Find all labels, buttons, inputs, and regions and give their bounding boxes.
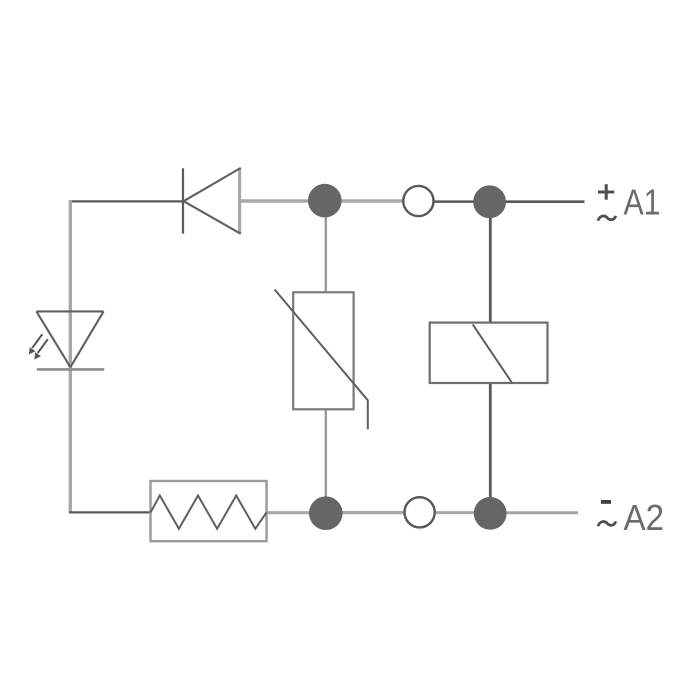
wire: top-left horizontal (left column to diode cathode): [69, 200, 183, 202]
node junction dot top-right: [473, 185, 506, 218]
varistor R2 box: [293, 292, 353, 409]
LED light arrow 2: [34, 339, 48, 359]
varistor R2 diagonal stroke with tail: [275, 290, 368, 430]
relay coil K1 box: [430, 323, 548, 383]
LED V2 cathode bar: [37, 368, 104, 371]
wire: top-middle dot to open terminal circle: [330, 199, 404, 202]
wire: bottom open circle to bottom-right dot: [432, 511, 490, 514]
wire: relay column lower (coil to bottom-right dot): [489, 383, 492, 513]
wire: left column vertical (through LED): [69, 200, 72, 512]
diode V1 triangle: [184, 168, 241, 234]
wire: resistor to bottom-middle dot: [267, 511, 331, 514]
svg-text:A1: A1: [624, 182, 661, 223]
svg-text:A2: A2: [624, 497, 665, 538]
wire: varistor column upper (top dot to varistor): [325, 204, 327, 293]
wire: relay column upper (top-right dot to coil): [489, 204, 492, 323]
AC tilde symbol at A2: [598, 522, 616, 527]
diode V1 cathode bar: [182, 168, 184, 233]
resistor R1 zigzag: [151, 496, 267, 529]
polarity minus symbol at A2: [601, 500, 611, 504]
node junction dot bottom-right: [474, 497, 507, 530]
wire: varistor column lower (varistor to bottom dot): [325, 410, 327, 514]
terminal open circle top: [403, 186, 433, 216]
wire: open circle to top-right node dot: [430, 200, 490, 203]
node junction dot top-middle: [308, 184, 342, 218]
resistor R1 box: [151, 481, 267, 541]
wire: bottom-middle dot to open terminal circle: [330, 511, 406, 514]
wire: top-right dot to A1 terminal: [490, 200, 585, 203]
LED V2 triangle: [36, 311, 103, 367]
AC tilde symbol at A1: [598, 216, 616, 221]
wire: diode to top-middle node dot: [240, 199, 330, 202]
relay coil K1 diagonal: [473, 324, 512, 382]
polarity plus symbol at A1: [598, 184, 614, 200]
node junction dot bottom-middle: [309, 496, 343, 530]
LED light arrow 1: [29, 334, 43, 354]
wire: bottom-right dot to A2 terminal: [490, 511, 578, 514]
wire: bottom-left horizontal (left column to resistor): [69, 511, 151, 513]
terminal open circle bottom: [405, 497, 435, 527]
